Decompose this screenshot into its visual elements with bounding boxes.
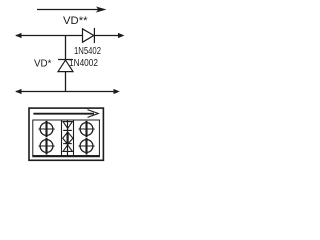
diode VD* (1N4002)	[58, 60, 73, 72]
wire: top conductor right segment	[94, 35, 122, 37]
diode marking: triangle up	[63, 145, 72, 152]
terminal arrow left of bottom conductor	[15, 89, 22, 94]
svg-text:1N5402: 1N5402	[74, 46, 101, 57]
current direction arrow on block	[33, 110, 98, 118]
wire: vertical branch to bottom conductor	[65, 72, 67, 92]
diode marking: cathode bar	[63, 129, 72, 131]
screw terminal top-right	[79, 121, 95, 138]
rectifier block outline	[29, 108, 103, 160]
svg-text:1N4002: 1N4002	[69, 58, 98, 69]
diode marking: diamond	[63, 132, 73, 144]
svg-text:VD*: VD*	[34, 57, 52, 69]
rail left of diode column	[61, 120, 63, 156]
terminal arrow right of top conductor	[118, 33, 125, 38]
wire: top conductor left segment	[16, 35, 83, 37]
wire: vertical branch from top conductor	[65, 36, 67, 60]
screw terminal bottom-right	[79, 138, 95, 155]
current direction arrow (top)	[37, 6, 107, 12]
diode marking: lower cathode bar	[63, 143, 72, 145]
diode marking: triangle down	[63, 122, 72, 129]
wire: bottom conductor	[16, 91, 115, 93]
inner panel heavy bottom edge	[32, 155, 100, 157]
screw terminal top-left	[39, 121, 55, 138]
diode VD** (1N5402)	[83, 28, 95, 43]
terminal arrow left of top conductor	[15, 33, 22, 38]
svg-text:VD**: VD**	[63, 15, 88, 27]
diode column center lead	[67, 120, 69, 156]
terminal arrow right of bottom conductor	[114, 89, 120, 94]
diode marking: heavy center of diamond	[66, 132, 68, 144]
inner terminal panel	[33, 120, 100, 156]
screw terminal bottom-left	[39, 138, 55, 155]
rail right of diode column	[73, 120, 75, 156]
